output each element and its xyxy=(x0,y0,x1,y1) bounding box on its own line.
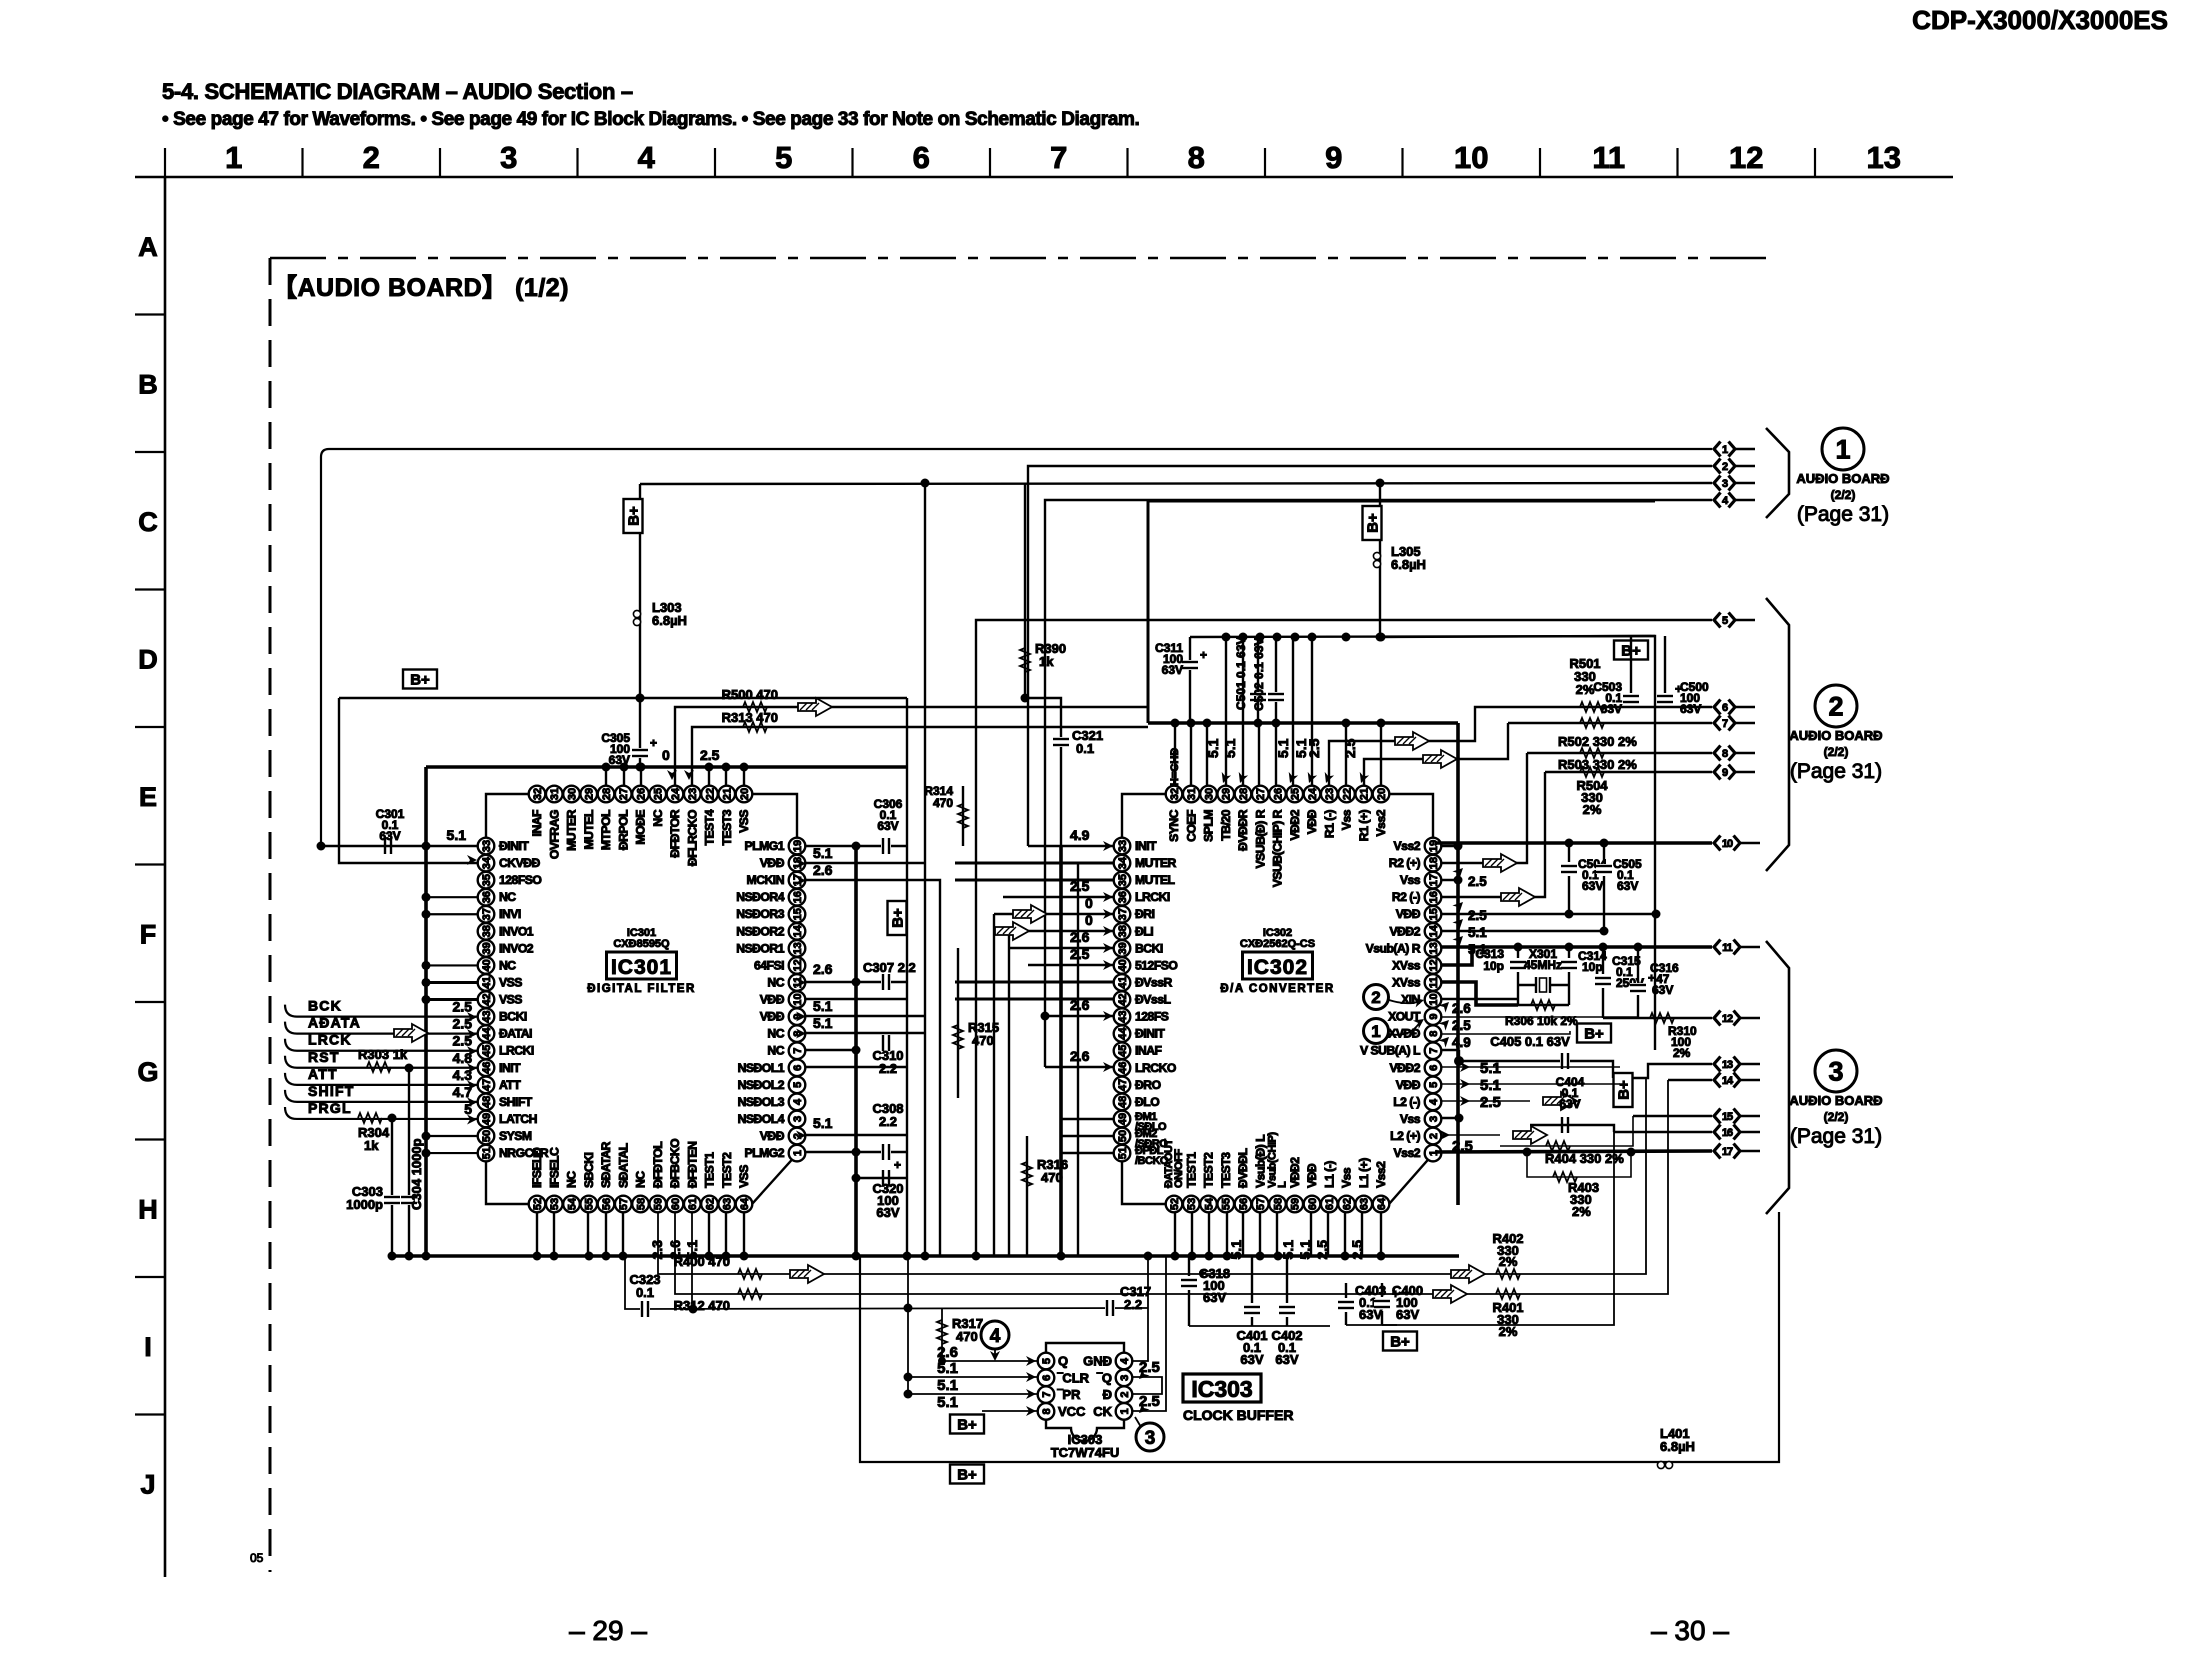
IC302 pin 13 Vsub(A) R xyxy=(1366,940,1442,957)
svg-text:L1 (-): L1 (-) xyxy=(1322,1161,1336,1188)
wire C500 vertical xyxy=(1664,636,1666,693)
label 0 above pin24 xyxy=(662,747,677,780)
svg-text:C304 1000p: C304 1000p xyxy=(409,1138,424,1210)
B+ label left xyxy=(403,670,437,689)
svg-text:5.1: 5.1 xyxy=(1480,1077,1501,1094)
node bottom bus xyxy=(602,1252,611,1261)
wire conn12 xyxy=(1603,1017,1712,1019)
svg-text:L2 (-): L2 (-) xyxy=(1393,1095,1420,1109)
wire mid vertical 994 xyxy=(993,914,995,1256)
label R503 xyxy=(1558,757,1637,772)
wire C40x rail xyxy=(1189,1325,1330,1327)
svg-text:TEST2: TEST2 xyxy=(1202,1152,1216,1188)
wire pin11 xyxy=(805,998,907,1000)
IC301 pin 23 ĐFLRCKO xyxy=(684,786,701,866)
wire IC301 bottom pin drop xyxy=(587,1212,589,1256)
wire C501 column xyxy=(1257,637,1259,723)
label C502 xyxy=(1252,638,1266,711)
svg-text:8: 8 xyxy=(1041,1408,1053,1414)
capacitor C323 xyxy=(640,1301,650,1317)
svg-text:TC7W74FU: TC7W74FU xyxy=(1051,1445,1120,1460)
bottom bus xyxy=(392,1254,1459,1258)
IC301 pin 22 TEST4 xyxy=(701,786,718,846)
node bottom bus xyxy=(550,1252,559,1261)
label 2.6 pin17 xyxy=(796,862,833,886)
svg-text:470: 470 xyxy=(972,1033,994,1048)
label 2.5 pin36 IC302 xyxy=(1070,878,1113,902)
crystal X301 xyxy=(1518,977,1569,993)
svg-text:VĐĐ2: VĐĐ2 xyxy=(1389,1061,1420,1075)
signal label ATT xyxy=(308,1066,338,1082)
node rail xyxy=(1291,633,1300,642)
label L303 xyxy=(652,600,687,628)
ref circle 2 small xyxy=(1364,985,1389,1010)
svg-text:56: 56 xyxy=(601,1198,613,1210)
svg-text:‾PR: ‾PR xyxy=(1057,1387,1081,1402)
svg-text:12: 12 xyxy=(1722,1013,1733,1025)
svg-text:13: 13 xyxy=(1867,140,1901,175)
audio board caption xyxy=(272,274,569,302)
node xyxy=(422,995,431,1004)
label R400 xyxy=(674,1254,730,1269)
wire pin2 xyxy=(805,1134,907,1136)
capacitor C307 xyxy=(881,974,891,990)
svg-text:Vss: Vss xyxy=(1400,873,1421,887)
IC302 pin 17 Vss xyxy=(1400,872,1441,889)
IC302 pin 22 Vss xyxy=(1338,786,1355,830)
wire pin8 xvdd xyxy=(1441,1031,1570,1034)
node C317 mid xyxy=(904,1304,913,1313)
page number 29 xyxy=(569,1615,647,1646)
hatched arrow R500 xyxy=(798,698,832,716)
svg-text:63V: 63V xyxy=(876,1205,899,1220)
svg-text:2.6: 2.6 xyxy=(1070,929,1090,945)
svg-text:• See page 47 for Waveforms.: • See page 47 for Waveforms. • See page … xyxy=(162,109,1139,130)
IC303 pin 3 ‾Q xyxy=(1097,1370,1133,1387)
svg-text:33: 33 xyxy=(1117,840,1129,852)
B+ box mid xyxy=(888,901,907,935)
node top bus xyxy=(602,763,611,772)
IC302 pin 43 128FS xyxy=(1114,1008,1169,1025)
svg-text:2.5: 2.5 xyxy=(700,747,720,763)
wire ref1 arrow xyxy=(1389,1015,1427,1035)
svg-text:50: 50 xyxy=(1117,1130,1129,1142)
svg-text:4: 4 xyxy=(792,1098,804,1105)
IC301 pin 53 IFSELC xyxy=(546,1147,563,1212)
svg-text:8: 8 xyxy=(1722,748,1728,760)
node bottom bus xyxy=(585,1252,594,1261)
hatched arrow pin18 xyxy=(1483,854,1517,872)
wire rail above IC302 xyxy=(1190,636,1655,637)
svg-text:56: 56 xyxy=(1238,1198,1250,1210)
svg-text:15: 15 xyxy=(1722,1111,1733,1123)
label 5.1 pin33 xyxy=(447,827,477,865)
wire C404 row xyxy=(1530,1125,1614,1132)
IC301 pin 36 NC xyxy=(478,889,517,906)
svg-text:(2/2): (2/2) xyxy=(1824,1110,1849,1124)
wire IC302 pin41 xyxy=(955,981,1114,984)
IC302 pin 39 BCKI xyxy=(1114,940,1163,957)
svg-text:ĐFĐTEN: ĐFĐTEN xyxy=(685,1142,699,1188)
wire IC301 bottom pin drop xyxy=(553,1212,555,1256)
node bottom bus xyxy=(1341,1252,1350,1261)
svg-text:– 30 –: – 30 – xyxy=(1651,1615,1729,1646)
wire C403 bottom xyxy=(1346,1324,1397,1326)
svg-text:XVss: XVss xyxy=(1392,975,1421,989)
wire PRGL branch down xyxy=(391,1118,393,1256)
capacitor C505 xyxy=(1596,843,1612,931)
IC301 pin 44 ĐATAI xyxy=(478,1025,532,1042)
label R314 xyxy=(924,784,953,810)
B+ box bottom xyxy=(950,1465,984,1484)
IC301 pin 6 NSĐOL1 xyxy=(738,1059,806,1076)
connector stub 2 to audio board 2/2 xyxy=(1714,459,1755,474)
svg-text:61: 61 xyxy=(687,1198,699,1210)
label R401 xyxy=(1492,1300,1523,1339)
svg-text:1k: 1k xyxy=(364,1138,379,1153)
svg-text:1000p: 1000p xyxy=(346,1197,383,1212)
svg-text:62: 62 xyxy=(704,1198,716,1210)
wire IC302 pin51 xyxy=(1061,1152,1114,1154)
node xyxy=(422,910,431,919)
svg-text:40: 40 xyxy=(1117,959,1129,971)
node 908 pin7 xyxy=(904,1390,913,1399)
wire bus to IC301 pin 36 xyxy=(426,896,478,898)
thick bus above IC301 xyxy=(426,765,908,769)
svg-text:42: 42 xyxy=(481,993,493,1005)
svg-text:2.5: 2.5 xyxy=(1070,946,1090,962)
IC302 pin 40 512FSO xyxy=(1114,957,1178,974)
svg-text:63V: 63V xyxy=(1275,1352,1298,1367)
hatched arrow R401 xyxy=(1433,1285,1467,1303)
capacitor C320 xyxy=(881,1158,901,1186)
wire IC302 bottom pin drop xyxy=(1226,1212,1228,1256)
wire IC302 top box xyxy=(1148,501,1655,723)
label L305 xyxy=(1391,544,1426,572)
svg-text:2: 2 xyxy=(363,140,380,175)
IC302 pin 36 LRCKI xyxy=(1114,889,1170,906)
value 2.5 pin 45 xyxy=(453,1033,477,1057)
wire IC303 pin3 loop xyxy=(1133,1377,1162,1394)
IC301 pin 15 NSĐOR3 xyxy=(736,906,805,923)
IC label IC302 xyxy=(1220,927,1334,995)
node top bus IC302 xyxy=(1203,719,1212,728)
node top bus IC302 xyxy=(1377,719,1386,728)
IC302 pin 41 ĐVssR xyxy=(1114,974,1173,991)
svg-text:2.6: 2.6 xyxy=(1070,1048,1090,1064)
connector stub 16 to audio board 2/2 xyxy=(1714,1125,1760,1140)
IC302 pin 23 R1 (-) xyxy=(1321,786,1338,838)
svg-text:J: J xyxy=(140,1469,155,1499)
wire IC302 top pin drop xyxy=(1206,723,1208,786)
svg-text:55: 55 xyxy=(1221,1198,1233,1210)
wedge pin21 xyxy=(1356,772,1369,785)
svg-text:7: 7 xyxy=(1050,140,1067,175)
svg-text:57: 57 xyxy=(1255,1198,1267,1210)
svg-text:24: 24 xyxy=(670,787,682,800)
resistor R501 xyxy=(1580,702,1604,712)
IC302 pin 5 VĐĐ xyxy=(1396,1077,1442,1094)
capacitor C308 xyxy=(881,1144,891,1160)
wire IC302 top pin drop xyxy=(1380,723,1382,786)
IC302 pin 34 MUTER xyxy=(1114,855,1177,872)
svg-text:0.1: 0.1 xyxy=(1076,741,1094,756)
svg-text:3: 3 xyxy=(1119,1375,1131,1381)
node rail 846 xyxy=(1454,842,1463,851)
svg-text:INIT: INIT xyxy=(1135,839,1157,853)
svg-text:5.1: 5.1 xyxy=(813,998,833,1014)
IC301 pin 51 NRGCLR xyxy=(478,1145,549,1162)
node R403 a xyxy=(1523,1148,1532,1157)
IC301 pin 24 ĐFĐTOR xyxy=(667,786,684,858)
wire drop to IC301 top pin xyxy=(640,767,642,786)
svg-text:48: 48 xyxy=(481,1096,493,1108)
resistor R404 xyxy=(1546,1141,1570,1151)
svg-text:2.5: 2.5 xyxy=(1349,1240,1365,1260)
wire to connector 1 xyxy=(321,449,1712,846)
svg-text:NC: NC xyxy=(767,1044,784,1058)
IC301 pin 20 VSS xyxy=(736,786,753,833)
wire pin10 xin xyxy=(1441,998,1518,1000)
wire CKVDD drop xyxy=(339,698,478,863)
wire mid vertical 907 xyxy=(906,698,908,1256)
wire pin11 step xyxy=(1441,982,1518,1005)
svg-text:51: 51 xyxy=(481,1147,493,1159)
node pin12 bus xyxy=(852,978,861,987)
svg-text:+: + xyxy=(650,736,657,750)
svg-text:39: 39 xyxy=(481,942,493,954)
svg-text:2: 2 xyxy=(1722,461,1728,473)
svg-text:60: 60 xyxy=(1307,1198,1319,1210)
label R312 xyxy=(674,1298,730,1313)
svg-text:5.1: 5.1 xyxy=(1480,1060,1501,1077)
label C308 xyxy=(872,1101,903,1129)
svg-text:R2 (+): R2 (+) xyxy=(1389,856,1421,870)
svg-text:H: H xyxy=(138,1194,158,1224)
IC301 pin 63 TEST2 xyxy=(718,1152,735,1212)
wire drop to IC301 top pin xyxy=(743,767,745,786)
wire pin28 column xyxy=(1242,637,1244,786)
node pin19 bus xyxy=(852,842,861,851)
wire pin3 IC302 xyxy=(1441,1117,1459,1119)
connector stub 5 to audio board 2/2 xyxy=(1714,613,1755,628)
svg-text:IC303: IC303 xyxy=(1191,1376,1252,1402)
svg-text:55: 55 xyxy=(584,1198,596,1210)
svg-text:63V: 63V xyxy=(1582,879,1603,893)
wire R313 net xyxy=(692,727,1148,786)
svg-text:41: 41 xyxy=(481,976,493,988)
board ref circle 3 xyxy=(1815,1050,1857,1092)
svg-text:PLMG1: PLMG1 xyxy=(745,839,785,853)
svg-text:ĐFĐTOL: ĐFĐTOL xyxy=(651,1141,665,1188)
resistor R500 xyxy=(743,702,767,712)
svg-text:2%: 2% xyxy=(1576,682,1595,697)
node pin15 rail xyxy=(1652,910,1661,919)
wire mid vertical 958 xyxy=(957,948,959,1098)
label 5.1 pin10 xyxy=(796,998,833,1022)
wire B+ horizontal xyxy=(339,697,907,699)
node rail xyxy=(1256,633,1265,642)
capacitor C310 xyxy=(881,1035,891,1051)
IC302 pin 18 R2 (+) xyxy=(1389,855,1442,872)
svg-text:VĐĐ2: VĐĐ2 xyxy=(1389,924,1420,938)
wire C402 drop xyxy=(1279,1256,1295,1326)
IC302 pin 59 VĐĐ2 xyxy=(1286,1157,1303,1213)
IC302 pin 16 R2 (-) xyxy=(1392,889,1441,906)
connector stub 9 to audio board 2/2 xyxy=(1714,765,1755,780)
IC303 sub label xyxy=(1051,1432,1120,1460)
svg-text:6: 6 xyxy=(792,1065,804,1071)
svg-text:SYSM: SYSM xyxy=(499,1129,532,1143)
wire pin17 xyxy=(805,880,940,1256)
svg-text:37: 37 xyxy=(481,908,493,920)
IC301 pin 17 MCKIN xyxy=(747,872,806,889)
svg-text:2.5: 2.5 xyxy=(453,1016,473,1032)
svg-text:10: 10 xyxy=(1428,993,1440,1005)
svg-text:(Page 31): (Page 31) xyxy=(1790,760,1882,783)
svg-text:29: 29 xyxy=(584,788,596,800)
svg-text:SPLM: SPLM xyxy=(1202,810,1216,842)
svg-text:20: 20 xyxy=(739,788,751,800)
wire conn13 xyxy=(1613,1064,1712,1078)
label 5.1 pin14 xyxy=(1452,932,1487,957)
svg-text:63V: 63V xyxy=(1652,983,1673,997)
svg-text:51: 51 xyxy=(1117,1147,1129,1159)
wire IC301 bottom pin drop xyxy=(743,1212,745,1256)
svg-text:47: 47 xyxy=(1117,1079,1129,1091)
IC301 pin 56 SĐATAR xyxy=(598,1141,615,1212)
svg-text:B+: B+ xyxy=(626,506,643,526)
IC302 pin 3 Vss xyxy=(1400,1111,1441,1128)
capacitor C303 xyxy=(384,1195,400,1205)
label R317 xyxy=(952,1316,983,1344)
capacitor C313 xyxy=(1510,947,1526,1005)
label R310 xyxy=(1668,1024,1697,1060)
node bottom bus xyxy=(1188,1252,1197,1261)
IC303 package outline xyxy=(1046,1343,1124,1441)
svg-text:25: 25 xyxy=(653,788,665,800)
label C505 xyxy=(1613,857,1642,893)
svg-text:54: 54 xyxy=(566,1197,578,1210)
svg-text:NC: NC xyxy=(499,958,516,972)
wire to connector 4 xyxy=(1045,500,1712,1067)
node conn11 xyxy=(1514,943,1523,952)
wire C400 net right xyxy=(1382,1132,1614,1325)
label R304 xyxy=(358,1125,390,1153)
label 0 pin38 IC302 xyxy=(1085,912,1113,936)
node top bus IC302 xyxy=(1342,719,1351,728)
label 2.5 pin18 xyxy=(1452,864,1487,889)
svg-text:0: 0 xyxy=(1085,895,1093,911)
signal label SHIFT xyxy=(308,1083,354,1099)
label C321 xyxy=(1072,728,1103,756)
node top bus xyxy=(637,763,646,772)
label 2.5 pin4 IC302 xyxy=(1460,1094,1501,1111)
wire L303 branch xyxy=(639,484,641,767)
svg-text:25: 25 xyxy=(1290,788,1302,800)
node C323 join xyxy=(689,1305,698,1314)
wire SHIFT xyxy=(285,1090,478,1102)
svg-text:SĐATAR: SĐATAR xyxy=(599,1141,613,1188)
node bottom bus xyxy=(1205,1252,1214,1261)
svg-text:MUTER: MUTER xyxy=(565,809,579,851)
node 908 pin6 xyxy=(904,1373,913,1382)
node conn11 xyxy=(1599,943,1608,952)
svg-text:NSĐOR1: NSĐOR1 xyxy=(736,941,785,955)
node bottom bus xyxy=(1256,1252,1265,1261)
wire IC302 bottom pin drop xyxy=(1276,1212,1278,1256)
resistor R503 xyxy=(1580,748,1604,758)
svg-text:VĐĐ: VĐĐ xyxy=(1396,1078,1421,1092)
wire IC303 pin6 xyxy=(908,1376,1037,1378)
svg-text:2: 2 xyxy=(1828,692,1843,722)
node xyxy=(422,961,431,970)
capacitor C317 xyxy=(1105,1300,1115,1316)
svg-text:45MHz: 45MHz xyxy=(1524,958,1562,972)
svg-text:2.2: 2.2 xyxy=(1124,1297,1142,1312)
wire pin7 IC302 xyxy=(1441,1049,1459,1051)
IC301 pin 62 TEST1 xyxy=(701,1152,718,1212)
resistor R316 xyxy=(1022,1162,1032,1186)
signal label RST xyxy=(308,1049,340,1065)
svg-text:VSS: VSS xyxy=(499,993,522,1007)
wire C311 vertical xyxy=(1189,637,1191,723)
svg-text:61: 61 xyxy=(1324,1198,1336,1210)
IC302 pin 56 ĐVĐĐL xyxy=(1235,1147,1252,1212)
svg-text:4: 4 xyxy=(1428,1098,1440,1105)
svg-text:17: 17 xyxy=(1722,1146,1733,1158)
wire IC301 bottom pin drop xyxy=(536,1212,538,1256)
wire IC302 top pin drop xyxy=(1258,723,1260,786)
IC301 pin 38 INVO1 xyxy=(478,923,534,940)
svg-text:R2 (-): R2 (-) xyxy=(1392,890,1421,904)
svg-text:5.1: 5.1 xyxy=(1275,738,1291,758)
resistor R310 xyxy=(1650,1013,1674,1023)
svg-text:TB/20: TB/20 xyxy=(1219,809,1233,840)
label R500 xyxy=(722,687,778,702)
svg-text:10: 10 xyxy=(1722,838,1733,850)
svg-text:63V: 63V xyxy=(1240,1352,1263,1367)
svg-text:54: 54 xyxy=(1203,1197,1215,1210)
svg-text:(2/2): (2/2) xyxy=(1824,745,1849,759)
svg-text:INVI: INVI xyxy=(499,907,521,921)
IC301 pin 32 INAF xyxy=(529,786,546,837)
svg-text:Vss2: Vss2 xyxy=(1394,839,1421,853)
svg-text:VCC: VCC xyxy=(1058,1404,1086,1419)
IC302 pin 8 XVĐĐ xyxy=(1388,1025,1441,1042)
svg-text:B+: B+ xyxy=(1616,1080,1633,1100)
wire R401 net xyxy=(1420,1080,1668,1294)
svg-text:27: 27 xyxy=(618,788,630,800)
svg-text:ĐINIT: ĐINIT xyxy=(499,839,529,853)
label 5.1 pin9 xyxy=(796,1015,833,1039)
svg-text:1k: 1k xyxy=(1039,654,1054,669)
wire pin61 drop xyxy=(691,1212,693,1309)
svg-text:63V: 63V xyxy=(1162,663,1183,677)
IC302 pin 51 ĐPĐL /BCKO xyxy=(1114,1145,1169,1167)
IC package outline IC302 xyxy=(1122,794,1433,1204)
node rail 880 xyxy=(1454,876,1463,885)
wire bus to IC301 pin 37 xyxy=(426,913,478,915)
IC302 pin 31 COEF xyxy=(1183,786,1200,842)
svg-text:AUĐIO BOARĐ: AUĐIO BOARĐ xyxy=(1789,728,1882,743)
section title xyxy=(162,79,633,104)
label 4.9 pin33 IC302 xyxy=(1070,827,1113,851)
svg-text:63V: 63V xyxy=(1359,1307,1382,1322)
svg-text:59: 59 xyxy=(1290,1198,1302,1210)
IC302 pin 54 TEST2 xyxy=(1200,1152,1217,1212)
svg-text:NSĐOL2: NSĐOL2 xyxy=(738,1078,785,1092)
